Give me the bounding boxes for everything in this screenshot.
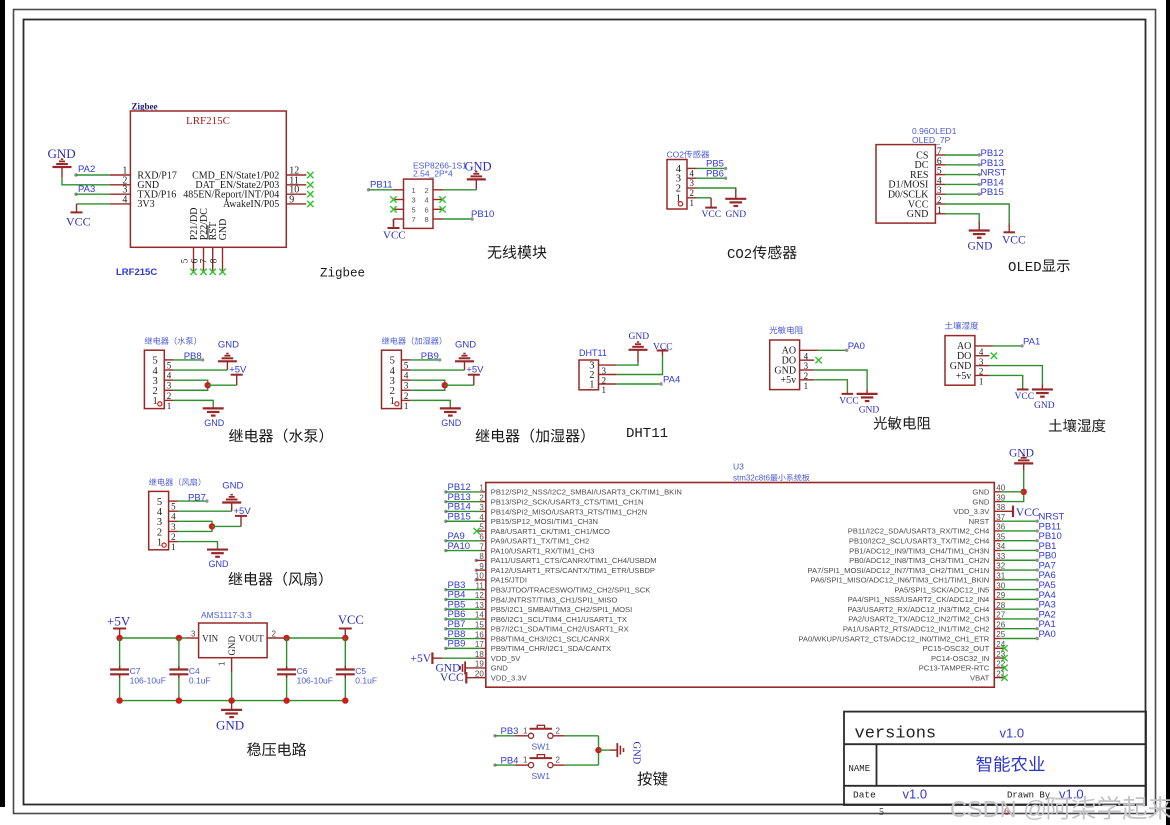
wire junction to pin 40 [1001,491,1023,493]
svg-text:GND: GND [48,146,76,161]
svg-text:stm32c8t6: stm32c8t6 [733,474,770,483]
ground symbol (relay K1 (water pump) top) [218,354,237,371]
svg-text:PA4: PA4 [663,375,680,386]
pin 2 lead [110,184,130,186]
pin 1 lead [687,197,697,199]
svg-text:VDD_5V: VDD_5V [491,654,521,663]
relay K2 (humidifier) label [382,337,442,345]
wire pin2 to junction [411,385,445,390]
photoresistor +5v lead [800,379,815,381]
DHT11 pin3 lead [599,364,617,366]
svg-text:PC14-OSC32_IN: PC14-OSC32_IN [931,654,989,663]
svg-text:VCC: VCC [839,396,859,406]
svg-text:C4: C4 [189,666,200,676]
wire to NRST [945,173,981,176]
pin 8 lead [433,218,443,220]
svg-text:VCC: VCC [702,210,722,220]
pin lead PB15 [935,193,945,195]
U3 pin 25 lead [994,638,1001,640]
pin 1 lead (GND) [935,213,945,215]
wire U3 pin 26 to PA1 [1001,627,1039,630]
svg-text:3: 3 [167,381,172,391]
no-connect X pin 11 [307,182,313,188]
svg-text:+5V: +5V [229,365,247,376]
push button caption [638,771,668,785]
svg-text:PB7/I2C1_SDA/TIM4_CH2/USART1_R: PB7/I2C1_SDA/TIM4_CH2/USART1_RX [491,625,629,634]
svg-text:PA2/USART2_TX/ADC12_IN2/TIM2_C: PA2/USART2_TX/ADC12_IN2/TIM2_CH3 [848,615,989,624]
ground symbol (Zigbee GND) [53,159,72,178]
no-connect X pin 12 [307,172,313,178]
svg-text:PA6/SPI1_MISO/ADC12_IN6/TIM3_C: PA6/SPI1_MISO/ADC12_IN6/TIM3_CH1/TIM1_BK… [810,576,989,585]
soil moisture sensor DO lead [975,355,990,357]
relay K1 (water pump) pin 2 lead [164,389,173,391]
svg-text:1: 1 [523,756,528,765]
U3 pin 22 stub [994,667,1004,669]
U3 pin 16 lead [481,638,486,640]
svg-text:PB5/I2C1_SMBAI/TIM3_CH2/SPI1_M: PB5/I2C1_SMBAI/TIM3_CH2/SPI1_MOSI [491,605,632,614]
relay K3 (fan) label [149,478,200,486]
pin 1 lead [394,189,404,191]
U3 pin 30 lead [994,589,1001,591]
wire pin1 to GND [411,400,451,407]
button SW1b pin 1 lead [515,764,529,766]
wire U3 pin 29 to PA4 [1001,598,1039,601]
title row divider 2 [844,785,1146,787]
svg-text:VCC: VCC [1002,235,1026,247]
svg-text:VCC: VCC [653,343,673,353]
U3 pin 24 stub [994,647,1004,649]
power symbol VCC (regulator) [339,629,352,639]
wire pin4 to PB5 [697,167,728,170]
svg-text:5: 5 [171,502,176,512]
svg-text:GND: GND [968,241,993,253]
svg-text:PA3: PA3 [78,184,95,195]
svg-text:2.54_2P*4: 2.54_2P*4 [413,169,453,179]
svg-text:GND: GND [972,497,989,506]
wire U3 pin 33 to PB0 [1001,559,1039,562]
svg-text:106-10uF: 106-10uF [297,676,333,686]
svg-text:1: 1 [157,537,162,548]
page right black bar [1166,0,1170,825]
svg-text:PA0: PA0 [1039,629,1056,640]
pin 1 lead [110,174,130,176]
svg-text:PA10/USART1_RX/TIM1_CH3: PA10/USART1_RX/TIM1_CH3 [491,546,595,555]
capacitor C5 plates [336,666,355,677]
wire PA10 to U3 pin 7 [444,549,481,552]
svg-text:VCC: VCC [338,613,364,627]
svg-text:5: 5 [404,360,409,370]
title block outer box [844,712,1146,805]
wire pin3 to PB6 [697,177,728,180]
wire U3 pin 35 to PB10 [1001,539,1039,542]
svg-text:versions: versions [855,725,937,744]
wire U3 pin 31 to PA6 [1001,578,1039,581]
U3 pin 33 lead [994,559,1001,561]
relay K2 (humidifier) pin 2 lead [401,389,410,391]
wire pin1 to VCC [697,197,712,199]
svg-text:2: 2 [171,532,176,542]
relay K2 (humidifier) pin 4 lead [401,369,410,371]
power symbol VCC (DHT11) [657,351,669,356]
pin 6 lead [433,208,443,210]
svg-text:PB11: PB11 [370,179,393,190]
ground symbol (relay K3 (fan) top) [222,495,241,512]
wire pin4 to VCC [77,203,111,205]
svg-text:GND: GND [726,210,747,220]
svg-text:2: 2 [425,186,429,195]
relay K2 (humidifier) pin 3 lead [401,379,410,381]
svg-text:3V3: 3V3 [137,199,154,210]
wire to PB15 [945,193,981,196]
photoresistor GND lead [800,369,815,371]
wire pin3 to GND [617,362,638,366]
svg-text:GND: GND [972,488,989,497]
wire PA2 to pin1 [74,173,110,176]
svg-text:PB15: PB15 [981,187,1004,198]
wire pin1 to PA4 [617,382,663,385]
svg-text:PB4/JNTRST/TIM3_CH1/SPI1_MISO: PB4/JNTRST/TIM3_CH1/SPI1_MISO [491,595,618,604]
pin lead NRST [935,174,945,176]
svg-text:Zigbee: Zigbee [132,102,158,112]
wire VCC to U3 pin 20 [466,677,486,679]
pin 3 lead [394,199,404,201]
header relay K1 (water pump) box [144,350,164,408]
relay K3 (fan) pin 2 lead [169,530,178,532]
svg-text:8: 8 [209,258,219,263]
pin 3 lead [110,193,130,195]
svg-text:Zigbee: Zigbee [320,266,365,280]
svg-text:PB11/I2C2_SDA/USART3_RX/TIM2_C: PB11/I2C2_SDA/USART3_RX/TIM2_CH4 [848,527,990,536]
capacitor C7 plates [110,666,129,677]
svg-text:1: 1 [218,661,227,666]
svg-text:U3: U3 [733,462,744,472]
svg-text:7: 7 [199,258,209,263]
junction dot (pin40) [1021,489,1027,495]
IC U_AMS1117 box [199,623,268,658]
svg-text:GND: GND [631,742,642,765]
wire +5V rail to VIN [120,637,186,639]
pin 1 indicator circle [678,202,682,206]
U3 pin 4 lead [481,520,486,522]
svg-text:5: 5 [879,807,884,818]
DHT11 pin1 lead [599,383,617,385]
wire junction to +5V [208,384,237,386]
ground symbol (regulator) [221,701,242,718]
svg-text:GND: GND [491,664,508,673]
ground symbol (soil moisture sensor) [1032,384,1053,396]
svg-text:GND: GND [465,160,492,174]
svg-text:GND: GND [455,340,476,351]
GND lead (buttons) [610,749,617,751]
pin 4 lead [687,167,697,169]
no-connect X pin 8 [219,269,225,275]
junction dot (rail C5 end) [342,697,348,703]
pin 3 lead [687,177,697,179]
wire PB11 to pin1 [367,188,394,191]
no-connect X U3 pin 5 [474,528,480,534]
wire PB14 to U3 pin 3 [444,510,481,513]
wire to PB12 [945,153,981,156]
svg-text:1: 1 [167,401,172,411]
svg-text:GND: GND [204,418,225,428]
ground symbol (DHT11) [629,342,648,362]
no-connect X U3 pin 21 [1001,674,1007,680]
svg-text:4: 4 [425,196,429,205]
svg-text:+5V: +5V [411,653,432,665]
U3 pin 6 lead [481,540,486,542]
wire pin1 to GND [174,400,214,407]
svg-text:GND: GND [907,209,929,220]
svg-text:2: 2 [167,391,172,401]
svg-text:NAME: NAME [849,764,871,774]
svg-text:C5: C5 [355,666,366,676]
junction dot (relay K2 (humidifier)) [442,382,448,388]
wire +5v pin [814,380,847,393]
svg-text:0.1uF: 0.1uF [355,676,377,686]
wire PB3 to button SW1a [493,734,515,737]
svg-text:VIN: VIN [202,634,218,644]
svg-text:v1.0: v1.0 [1000,726,1025,741]
U3 pin 32 lead [994,569,1001,571]
U3 pin 35 lead [994,540,1001,542]
wire U3 pin 25 to PA0 [1001,637,1039,640]
wire PA9 to U3 pin 6 [444,539,481,542]
U3 pin 8 stub [475,559,486,562]
wire button SW1b to GND bus [565,764,599,766]
pin lead PB12 [935,154,945,156]
junction dot (rail C6) [283,697,289,703]
wire pin7 to VCC [393,219,395,227]
no-connect X pin 3 [390,196,396,202]
wire bus to GND [599,749,611,751]
svg-text:2: 2 [690,188,695,198]
wire pin2 to GND [443,189,476,191]
U3 pin 36 lead [994,530,1001,532]
svg-text:3: 3 [171,522,176,532]
relay K1 (water pump) pin 5 lead [164,359,173,361]
U3 pin 39 lead [994,501,1001,503]
power symbol +5V (U3 pin18) [431,652,433,664]
svg-text:LRF215C: LRF215C [116,267,157,278]
power symbol VCC (ESP) [388,219,400,228]
wire to PB14 [945,183,981,186]
power symbol VCC (photoresistor) [842,392,854,394]
svg-text:1: 1 [523,726,528,735]
wire C5 bottom [344,676,346,701]
wire junction to +5V [212,525,241,527]
photoresistor DO lead [800,359,815,361]
wire pin5 to PB7 [178,499,209,502]
ground symbol (relay K3 (fan) bottom) [207,548,228,557]
svg-text:PB0/ADC12_IN8/TIM3_CH3/TIM1_CH: PB0/ADC12_IN8/TIM3_CH3/TIM1_CH2N [849,556,989,565]
svg-text:AwakeIN/P05: AwakeIN/P05 [223,199,279,210]
pin 8 lead (bottom) [222,247,224,271]
svg-text:PB3/JTDO/TRACESWO/TIM2_CH2/SPI: PB3/JTDO/TRACESWO/TIM2_CH2/SPI1_SCK [491,586,651,595]
svg-text:PA5/SPI1_SCK/ADC12_IN5: PA5/SPI1_SCK/ADC12_IN5 [894,585,989,594]
svg-text:1: 1 [412,186,416,195]
svg-text:PB13/SPI2_SCK/USART3_CTS/TIM1_: PB13/SPI2_SCK/USART3_CTS/TIM1_CH1N [491,497,644,506]
U3 pin 27 lead [994,618,1001,620]
soil moisture sensor no-connect X (DO) [991,353,997,359]
relay K1 (water pump) label [145,337,196,345]
relay K3 (fan) pin 5 lead [169,500,178,502]
svg-text:C6: C6 [297,666,308,676]
svg-text:2: 2 [556,726,561,735]
CSDN watermark [950,796,1170,822]
ground symbol (buttons) [617,743,623,757]
svg-text:PA9/USART1_TX/TIM1_CH2: PA9/USART1_TX/TIM1_CH2 [491,537,589,546]
relay K2 (humidifier) pin 5 lead [401,359,410,361]
power symbol +5V (relay K3 (fan)) [235,516,247,527]
voltage regulator caption [247,742,306,756]
junction dot (+5V rail at C4) [176,635,182,641]
relay K3 (fan) pin 3 lead [169,520,178,522]
pin 4 lead [433,199,443,201]
button SW1b pin 2 lead [553,764,565,766]
svg-text:6: 6 [425,205,429,214]
U3 pin 23 stub [994,657,1004,659]
no-connect X pin 6 [439,206,445,212]
svg-text:PA0/WKUP/USART2_CTS/ADC12_IN0/: PA0/WKUP/USART2_CTS/ADC12_IN0/TIM2_CH1_E… [798,634,989,643]
soil moisture sensor +5v lead [975,374,990,376]
page left black bar [0,0,5,807]
svg-text:+5V: +5V [466,365,484,376]
pin 4 lead [110,203,130,205]
relay K1 (water pump) caption [229,429,323,443]
svg-text:OLED: OLED [1008,260,1042,276]
svg-text:Date: Date [853,790,876,801]
svg-text:VCC: VCC [383,230,406,242]
wire AO to PA0 [818,349,849,352]
U3 pin 12 lead [481,598,486,600]
OLED display caption [1008,260,1070,277]
wire pin4 to GND [178,510,232,512]
svg-text:PB15/SP12_MOSI/TIM1_CH3N: PB15/SP12_MOSI/TIM1_CH3N [491,517,598,526]
U3 pin 31 lead [994,579,1001,581]
pin 2 lead (VCC) [935,203,945,205]
wire GND pin [989,366,1042,385]
svg-text:GND: GND [218,340,239,351]
wire PB12 to U3 pin 1 [444,490,481,493]
power symbol +5V (relay K1 (water pump)) [231,375,243,386]
wire U3 pin 30 to PA5 [1001,588,1039,591]
relay K1 (water pump) pin1 indicator circle [158,402,162,406]
wire U3 pin 32 to PA7 [1001,568,1039,571]
svg-text:GND: GND [216,718,244,733]
svg-text:PA1/USART2_RTS/ADC12_IN1/TIM2_: PA1/USART2_RTS/ADC12_IN1/TIM2_CH2 [843,625,989,634]
svg-text:+5V: +5V [234,506,252,517]
wire PB3 to U3 pin 11 [444,588,481,591]
pin 2 lead [687,187,697,189]
U3 pin 13 lead [481,608,486,610]
wire U3 pin 38 to VCC [994,510,1013,512]
relay K2 (humidifier) caption [476,429,585,443]
svg-text:GND: GND [1009,448,1034,460]
wire pin8 to PB10 [443,217,474,220]
svg-text:PC13-TAMPER-RTC: PC13-TAMPER-RTC [919,664,990,673]
relay K3 (fan) pin1 indicator circle [162,543,166,547]
svg-text:NRST: NRST [969,517,990,526]
wire pin4 to GND [174,369,228,371]
junction dot (rail C7 end) [116,697,122,703]
wire PB6 to U3 pin 14 [444,617,481,620]
U3 pin 1 lead [481,491,486,493]
svg-text:LRF215C: LRF215C [186,115,230,127]
no-connect X pin 4 [439,196,445,202]
no-connect X pin 5 [390,206,396,212]
wire PB13 to U3 pin 2 [444,500,481,503]
U3 pin 37 lead [994,520,1001,522]
wire PB4 to U3 pin 12 [444,598,481,601]
U3 pin 28 lead [994,608,1001,610]
svg-text:CO2: CO2 [727,247,752,263]
pin lead PB13 [935,164,945,166]
U3 pin 3 lead [481,510,486,512]
svg-text:1: 1 [153,396,158,407]
CO2 sensor label [667,150,710,160]
pin 6 lead (bottom) [203,247,205,271]
svg-text:3: 3 [404,381,409,391]
svg-text:3: 3 [412,196,416,205]
IC U3 box [486,483,995,688]
ground symbol (relay K1 (water pump) bottom) [203,407,224,416]
no-connect X U3 pin 24 [1001,645,1007,651]
wire pin2 to junction [174,385,208,390]
relay K1 (water pump) pin 3 lead [164,379,173,381]
svg-text:4: 4 [404,371,409,381]
junction dot (VCC rail at C5) [342,635,348,641]
pin lead PB14 [935,183,945,185]
svg-text:2: 2 [556,756,561,765]
power symbol VCC (U3 pin38) [1012,506,1014,518]
soil moisture sensor AO lead [975,345,993,347]
svg-text:PA2: PA2 [78,164,95,175]
svg-text:3: 3 [191,629,196,638]
title NAME cell divider [876,744,878,786]
switch button SW1a symbol [528,725,553,738]
wire GND to pin2 [62,178,110,185]
wire button SW1a to GND bus [565,735,599,737]
power symbol VCC (OLED) [1004,223,1016,232]
wire U3 pin 37 to NRST [1001,519,1039,522]
svg-text:PB10: PB10 [471,209,494,220]
no-connect X U3 pin 23 [1001,655,1007,661]
ground symbol (OLED) [969,221,990,238]
header photoresistor box [770,340,800,390]
pin 10 lead [286,193,306,195]
relay K3 (fan) pin 1 lead [169,541,178,543]
svg-text:GND: GND [222,481,243,492]
power symbol VCC (U3 pin20) [465,672,467,684]
wire C7 top [119,638,121,669]
ground symbol (relay K2 (humidifier) top) [455,354,474,371]
svg-text:1: 1 [171,542,176,552]
svg-text:PA0: PA0 [848,341,865,352]
U3 pin 40 lead [994,491,1001,493]
header OLED box [876,145,935,224]
junction dot (rail GND stem) [228,697,234,703]
wire pin5 to PB8 [174,358,205,361]
U3 pin 10 stub [475,578,486,581]
relay K3 (fan) caption [229,572,323,586]
wire regulator GND down [231,672,233,701]
capacitor C4 plates [169,666,188,677]
svg-text:PB1/ADC12_IN9/TIM3_CH4/TIM1_CH: PB1/ADC12_IN9/TIM3_CH4/TIM1_CH3N [849,546,989,555]
svg-text:VCC: VCC [1016,507,1040,519]
svg-text:PA3/USART2_RX/ADC12_IN3/TIM2_C: PA3/USART2_RX/ADC12_IN3/TIM2_CH4 [847,605,989,614]
pin 9 lead [286,203,306,205]
ground symbol (ESP GND) [467,172,486,190]
